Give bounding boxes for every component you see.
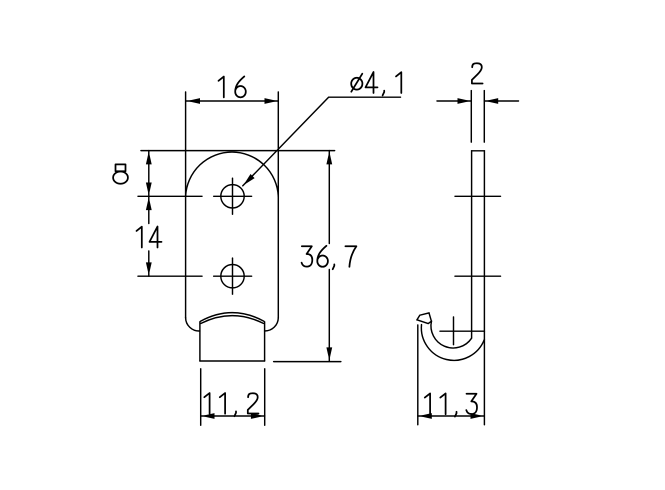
dimension 2 line tails	[437, 100, 471, 102]
bend center mark	[440, 330, 484, 332]
part left side / ext line	[185, 92, 187, 318]
dimension 36.7 vertical with text gap	[328, 151, 330, 244]
dimension 11.2 extension lines	[200, 369, 202, 426]
tick centerline 2	[455, 275, 501, 277]
bend line lower arc	[201, 316, 263, 324]
text 14	[137, 227, 162, 248]
2 arrows (outside)	[458, 98, 471, 104]
dimension 16	[186, 100, 278, 102]
hook outer arc	[421, 325, 484, 361]
hole 1 center mark	[214, 195, 252, 197]
text phi4.1	[351, 72, 401, 95]
hole1 centerline extension left	[138, 195, 202, 197]
dimension 11.2 line	[201, 415, 265, 417]
8 arrows	[146, 151, 152, 164]
part right side / ext line	[277, 92, 279, 318]
dim line 8/14 vertical with text gap	[148, 151, 150, 224]
strip left edge	[471, 151, 473, 338]
text 36.7	[302, 246, 357, 269]
bend line upper arc	[201, 313, 264, 322]
strip top cap	[472, 150, 485, 152]
36.7 bottom extension	[274, 361, 341, 363]
bottom edge	[200, 360, 265, 362]
neck left side	[199, 322, 201, 361]
hook tip end face	[417, 313, 431, 324]
16 arrows	[187, 98, 200, 104]
dimension 11.3 left extension	[417, 325, 419, 425]
text 11.3	[425, 393, 477, 416]
14 arrows	[146, 197, 152, 210]
strip right edge + 11.3 ext line	[483, 151, 485, 425]
text 2	[472, 63, 483, 83]
texts drawn with stroke glyphs	[113, 63, 483, 416]
dimension 11.3 line	[418, 415, 485, 417]
neck right side	[264, 322, 266, 361]
hole 2 center mark	[214, 275, 252, 277]
top tangent/extension line (8 and 36.7)	[141, 150, 335, 152]
36.7 arrows	[326, 151, 332, 164]
text 16	[219, 76, 246, 97]
hole2 centerline extension left	[138, 275, 202, 277]
hook inner arc	[431, 321, 472, 348]
leader line phi4.1	[243, 97, 401, 186]
leader arrow	[241, 174, 254, 187]
text 11.2	[204, 393, 258, 416]
11.2 arrows	[202, 413, 215, 419]
left fillet	[186, 318, 200, 331]
hole 2 circle	[221, 265, 244, 288]
11.3 arrows	[419, 413, 432, 419]
tick centerline 1	[455, 195, 501, 197]
dimension 2 extension lines	[470, 91, 472, 143]
right fillet	[265, 318, 279, 331]
arrows	[146, 98, 498, 419]
hole 1 circle	[221, 185, 244, 208]
text 8	[113, 164, 128, 183]
top semicircle	[186, 152, 279, 196]
